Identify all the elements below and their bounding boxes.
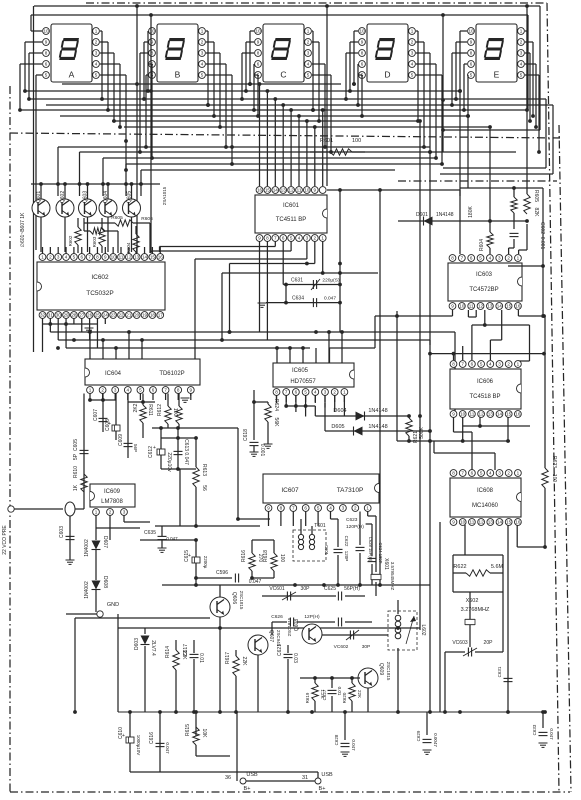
svg-text:C607: C607 [93, 409, 99, 421]
svg-text:5: 5 [201, 73, 204, 78]
svg-text:R619: R619 [305, 692, 310, 703]
svg-text:R606: R606 [141, 216, 153, 222]
svg-text:1: 1 [95, 29, 98, 34]
svg-text:1000µ10V: 1000µ10V [136, 735, 141, 756]
svg-text:3: 3 [520, 51, 523, 56]
svg-text:7: 7 [285, 390, 288, 395]
svg-text:C622: C622 [344, 536, 349, 547]
svg-text:28: 28 [71, 313, 77, 318]
svg-text:3: 3 [307, 51, 310, 56]
svg-text:16: 16 [515, 304, 521, 309]
svg-text:100: 100 [551, 474, 557, 483]
svg-text:12: 12 [289, 188, 295, 193]
svg-text:R618: R618 [263, 550, 269, 562]
svg-text:4: 4 [314, 390, 317, 395]
svg-text:11: 11 [119, 255, 124, 260]
svg-text:11: 11 [470, 412, 475, 417]
svg-text:C624 180P: C624 180P [378, 543, 383, 564]
svg-text:0.001: 0.001 [259, 444, 265, 457]
svg-text:R615: R615 [185, 724, 191, 736]
svg-text:TC4572BP: TC4572BP [469, 287, 498, 293]
svg-text:C613 0.047: C613 0.047 [183, 439, 189, 465]
svg-text:9: 9 [258, 236, 261, 241]
svg-text:1: 1 [41, 255, 44, 260]
svg-text:A: A [69, 70, 75, 80]
svg-text:IC609: IC609 [104, 489, 121, 495]
svg-text:10: 10 [468, 29, 474, 34]
svg-text:VC601: VC601 [269, 586, 285, 592]
svg-text:1: 1 [95, 510, 98, 515]
svg-text:2: 2 [354, 506, 357, 511]
svg-text:C623: C623 [346, 517, 358, 523]
svg-text:36: 36 [225, 775, 231, 781]
svg-text:∅601~B607 1K: ∅601~B607 1K [20, 212, 26, 247]
svg-text:12: 12 [478, 304, 484, 309]
svg-text:IC601: IC601 [283, 203, 300, 209]
svg-text:C627: C627 [322, 689, 327, 700]
svg-text:12: 12 [479, 412, 485, 417]
svg-text:IC607: IC607 [281, 487, 299, 494]
svg-text:180K: 180K [468, 206, 474, 218]
svg-text:11: 11 [469, 304, 474, 309]
svg-text:5: 5 [479, 256, 482, 261]
svg-text:12: 12 [126, 255, 132, 260]
svg-text:C612: C612 [148, 446, 154, 458]
svg-text:11: 11 [297, 188, 302, 193]
svg-text:5: 5 [317, 506, 320, 511]
svg-text:22K: 22K [357, 690, 362, 698]
svg-text:120P(H): 120P(H) [346, 524, 364, 530]
svg-text:C635: C635 [144, 530, 156, 536]
svg-text:C634: C634 [292, 296, 304, 302]
svg-text:15: 15 [506, 304, 512, 309]
svg-text:19: 19 [142, 313, 148, 318]
svg-text:R613: R613 [201, 464, 207, 476]
svg-text:6: 6 [304, 506, 307, 511]
svg-text:IC608: IC608 [477, 488, 494, 494]
svg-text:1: 1 [343, 390, 346, 395]
svg-text:16: 16 [158, 255, 164, 260]
svg-text:1N4148: 1N4148 [436, 212, 454, 218]
svg-text:0.03: 0.03 [292, 653, 298, 663]
svg-text:1N4148: 1N4148 [368, 408, 387, 414]
svg-text:3: 3 [342, 506, 345, 511]
svg-text:30P: 30P [362, 644, 371, 650]
svg-text:D603: D603 [134, 638, 140, 650]
svg-text:9: 9 [452, 412, 455, 417]
svg-text:R611: R611 [147, 404, 153, 416]
svg-text:4: 4 [298, 236, 301, 241]
svg-text:20P: 20P [484, 640, 494, 646]
svg-text:0.047: 0.047 [165, 742, 170, 754]
svg-text:2SA1015: 2SA1015 [162, 186, 167, 205]
svg-text:3: 3 [114, 388, 117, 393]
svg-text:22: 22 [118, 313, 124, 318]
svg-text:C629: C629 [416, 730, 421, 741]
svg-text:8: 8 [280, 506, 283, 511]
svg-text:21: 21 [126, 313, 132, 318]
svg-text:18: 18 [150, 313, 156, 318]
svg-text:0.047: 0.047 [351, 739, 356, 751]
svg-text:4: 4 [201, 62, 204, 67]
svg-text:MC14060: MC14060 [472, 503, 499, 509]
svg-text:13: 13 [488, 520, 494, 525]
svg-text:R620: R620 [342, 692, 347, 703]
svg-text:27: 27 [79, 313, 85, 318]
svg-text:32: 32 [40, 313, 46, 318]
svg-text:1: 1 [307, 29, 310, 34]
svg-text:C626: C626 [271, 614, 283, 620]
svg-text:20: 20 [134, 313, 140, 318]
svg-text:15: 15 [506, 412, 512, 417]
svg-text:7: 7 [292, 506, 295, 511]
svg-text:C602: C602 [539, 222, 545, 234]
svg-text:5: 5 [480, 362, 483, 367]
svg-text:R605: R605 [111, 215, 123, 221]
svg-text:B+: B+ [244, 786, 251, 792]
svg-text:5: 5 [95, 73, 98, 78]
svg-text:16: 16 [515, 520, 521, 525]
svg-text:220µ(S): 220µ(S) [322, 278, 340, 284]
svg-text:4: 4 [489, 471, 492, 476]
svg-text:8: 8 [470, 51, 473, 56]
svg-text:15: 15 [506, 520, 512, 525]
svg-text:2SC1815: 2SC1815 [386, 662, 391, 681]
svg-text:3: 3 [57, 255, 60, 260]
svg-text:B: B [175, 70, 181, 80]
svg-text:LM7808: LM7808 [101, 499, 123, 505]
svg-text:10: 10 [43, 29, 49, 34]
svg-text:13: 13 [281, 188, 287, 193]
svg-text:2K2: 2K2 [133, 403, 139, 412]
svg-text:16: 16 [515, 412, 521, 417]
svg-text:Q607: Q607 [268, 630, 274, 642]
svg-text:2: 2 [507, 362, 510, 367]
svg-text:24: 24 [103, 313, 109, 318]
svg-text:HD70557: HD70557 [290, 379, 316, 385]
svg-text:Q606: Q606 [231, 592, 237, 604]
svg-text:R622: R622 [453, 564, 466, 570]
svg-text:9: 9 [267, 506, 270, 511]
svg-text:10: 10 [304, 188, 310, 193]
svg-text:C617: C617 [183, 644, 189, 656]
svg-text:23: 23 [111, 313, 117, 318]
svg-text:5: 5 [470, 73, 473, 78]
svg-text:14: 14 [497, 412, 503, 417]
svg-text:5.6M: 5.6M [491, 564, 504, 570]
svg-text:8: 8 [96, 255, 99, 260]
svg-text:IC604: IC604 [105, 371, 122, 377]
svg-text:2: 2 [411, 40, 414, 45]
svg-text:14: 14 [142, 255, 148, 260]
svg-text:82K: 82K [533, 208, 539, 218]
svg-text:5: 5 [411, 73, 414, 78]
svg-text:8: 8 [451, 256, 454, 261]
svg-text:6: 6 [361, 62, 364, 67]
svg-text:3: 3 [411, 51, 414, 56]
svg-text:1N4002: 1N4002 [84, 539, 90, 557]
svg-text:1K: 1K [73, 484, 79, 491]
svg-text:C596: C596 [216, 570, 228, 576]
svg-text:3: 3 [324, 390, 327, 395]
svg-text:R605: R605 [533, 190, 539, 202]
svg-text:USB: USB [246, 772, 258, 778]
svg-text:TC4518 BP: TC4518 BP [469, 394, 500, 400]
svg-text:2200µ: 2200µ [203, 556, 208, 569]
svg-text:5P: 5P [73, 453, 79, 460]
svg-text:TC5032P: TC5032P [86, 290, 113, 297]
svg-text:17: 17 [158, 313, 164, 318]
svg-text:12P(H): 12P(H) [304, 614, 320, 620]
svg-text:R623: R623 [551, 456, 557, 468]
svg-text:5: 5 [307, 73, 310, 78]
svg-text:13: 13 [487, 304, 493, 309]
svg-text:VC603: VC603 [452, 640, 468, 646]
svg-text:GND: GND [107, 602, 119, 608]
svg-text:1: 1 [201, 29, 204, 34]
svg-text:C621: C621 [277, 644, 283, 656]
svg-text:56K: 56K [273, 418, 279, 428]
svg-text:9: 9 [470, 40, 473, 45]
svg-text:9: 9 [451, 304, 454, 309]
svg-text:2: 2 [101, 388, 104, 393]
svg-text:4: 4 [411, 62, 414, 67]
svg-text:12: 12 [479, 520, 485, 525]
svg-text:15: 15 [150, 255, 156, 260]
svg-text:5: 5 [139, 388, 142, 393]
svg-text:9: 9 [361, 40, 364, 45]
svg-text:0.001: 0.001 [539, 237, 545, 250]
svg-text:6: 6 [295, 390, 298, 395]
svg-text:R614: R614 [165, 646, 171, 658]
svg-text:IC602: IC602 [91, 274, 109, 281]
svg-text:1: 1 [520, 29, 523, 34]
svg-text:R616: R616 [241, 550, 247, 562]
svg-text:D601: D601 [416, 212, 428, 218]
svg-text:25: 25 [95, 313, 101, 318]
svg-text:26: 26 [87, 313, 93, 318]
svg-text:1: 1 [321, 236, 324, 241]
svg-text:4: 4 [489, 256, 492, 261]
svg-text:10: 10 [460, 520, 466, 525]
svg-text:C631: C631 [291, 278, 303, 284]
svg-text:C601: C601 [324, 545, 329, 556]
svg-text:56: 56 [201, 485, 207, 491]
svg-text:4: 4 [329, 506, 332, 511]
svg-text:6: 6 [45, 62, 48, 67]
svg-text:Q608: Q608 [294, 619, 300, 631]
svg-text:7: 7 [88, 255, 91, 260]
svg-text:15: 15 [265, 188, 271, 193]
svg-text:2: 2 [95, 40, 98, 45]
svg-text:10: 10 [460, 412, 466, 417]
svg-text:30: 30 [56, 313, 62, 318]
svg-text:31: 31 [48, 313, 54, 318]
svg-text:6: 6 [471, 362, 474, 367]
svg-text:R604: R604 [479, 239, 485, 251]
svg-text:6: 6 [257, 62, 260, 67]
svg-text:2: 2 [520, 40, 523, 45]
svg-text:6: 6 [80, 255, 83, 260]
svg-text:31: 31 [302, 775, 308, 781]
svg-text:5: 5 [45, 73, 48, 78]
svg-text:8: 8 [452, 362, 455, 367]
svg-text:5: 5 [73, 255, 76, 260]
svg-text:3: 3 [95, 51, 98, 56]
svg-text:1N4002: 1N4002 [84, 581, 90, 599]
svg-text:9: 9 [314, 188, 317, 193]
svg-text:T601: T601 [314, 523, 326, 529]
svg-text:7: 7 [461, 256, 464, 261]
svg-text:3: 3 [123, 510, 126, 515]
svg-text:8: 8 [45, 51, 48, 56]
svg-text:22 VCO PRE: 22 VCO PRE [2, 525, 8, 555]
svg-text:D608: D608 [102, 576, 108, 588]
svg-text:C603: C603 [59, 526, 65, 538]
svg-text:0.047: 0.047 [549, 728, 554, 740]
svg-text:C631: C631 [497, 666, 502, 677]
svg-text:9: 9 [257, 40, 260, 45]
svg-text:10: 10 [255, 29, 261, 34]
svg-text:9: 9 [190, 388, 193, 393]
svg-text:16: 16 [257, 188, 263, 193]
svg-text:5: 5 [520, 73, 523, 78]
svg-text:C608: C608 [105, 419, 111, 431]
svg-text:0.047: 0.047 [324, 296, 336, 302]
svg-text:C616: C616 [149, 732, 155, 744]
svg-text:6: 6 [282, 236, 285, 241]
svg-text:IC606: IC606 [477, 379, 494, 385]
svg-text:4: 4 [307, 62, 310, 67]
svg-text:9: 9 [45, 40, 48, 45]
svg-text:IC605: IC605 [292, 368, 309, 374]
svg-text:56P: 56P [133, 444, 138, 452]
svg-text:1: 1 [411, 29, 414, 34]
svg-text:3: 3 [498, 362, 501, 367]
svg-text:D: D [384, 70, 390, 80]
svg-text:14: 14 [273, 188, 279, 193]
svg-text:Q609: Q609 [378, 663, 384, 675]
svg-text:C625: C625 [324, 586, 336, 592]
svg-text:8: 8 [452, 471, 455, 476]
svg-text:4: 4 [65, 255, 68, 260]
svg-text:2: 2 [333, 390, 336, 395]
svg-text:B+: B+ [319, 786, 326, 792]
svg-text:4: 4 [127, 388, 130, 393]
svg-text:0.047: 0.047 [249, 579, 262, 585]
svg-text:1: 1 [89, 388, 92, 393]
svg-text:2SC1815: 2SC1815 [287, 617, 292, 636]
svg-text:IC603: IC603 [476, 272, 493, 278]
svg-text:1: 1 [517, 256, 520, 261]
svg-text:8: 8 [177, 388, 180, 393]
svg-text:5: 5 [290, 236, 293, 241]
svg-text:2LV7.4: 2LV7.4 [150, 640, 156, 656]
svg-text:C609: C609 [118, 434, 124, 446]
svg-text:TA7310P: TA7310P [337, 487, 364, 494]
svg-text:2: 2 [507, 256, 510, 261]
svg-text:10: 10 [459, 304, 465, 309]
svg-text:2: 2 [49, 255, 52, 260]
svg-text:X602: X602 [466, 598, 479, 604]
svg-text:1: 1 [366, 506, 369, 511]
svg-text:2: 2 [109, 510, 112, 515]
svg-text:6: 6 [471, 471, 474, 476]
svg-text:8: 8 [275, 390, 278, 395]
svg-text:30P: 30P [301, 586, 311, 592]
svg-text:9: 9 [452, 520, 455, 525]
svg-text:1N4148: 1N4148 [368, 424, 387, 430]
svg-text:3: 3 [306, 236, 309, 241]
svg-text:14: 14 [497, 304, 503, 309]
svg-text:7: 7 [461, 471, 464, 476]
svg-text:C628: C628 [334, 734, 339, 745]
svg-text:56P(H): 56P(H) [344, 586, 360, 592]
svg-text:120P: 120P [344, 551, 349, 562]
svg-text:1: 1 [517, 362, 520, 367]
svg-text:7: 7 [164, 388, 167, 393]
svg-text:R612: R612 [157, 404, 163, 416]
svg-text:3: 3 [498, 256, 501, 261]
svg-text:3.2768MHZ: 3.2768MHZ [461, 607, 490, 613]
svg-text:TD6102P: TD6102P [159, 371, 184, 377]
svg-text:6: 6 [470, 62, 473, 67]
svg-text:13: 13 [134, 255, 140, 260]
svg-text:VC602: VC602 [334, 644, 349, 650]
svg-text:0.01: 0.01 [198, 653, 204, 663]
svg-text:6: 6 [470, 256, 473, 261]
svg-text:100: 100 [279, 554, 285, 563]
svg-text:13: 13 [488, 412, 494, 417]
svg-text:C610: C610 [118, 727, 124, 739]
svg-text:2: 2 [201, 40, 204, 45]
svg-text:10K: 10K [201, 729, 207, 739]
svg-text:0.0047: 0.0047 [433, 733, 438, 747]
svg-text:2SC1815: 2SC1815 [239, 591, 244, 610]
svg-text:11: 11 [470, 520, 475, 525]
svg-text:8: 8 [266, 236, 269, 241]
svg-text:R603: R603 [92, 236, 97, 247]
svg-text:6: 6 [152, 388, 155, 393]
svg-text:2: 2 [307, 40, 310, 45]
svg-text:10: 10 [149, 29, 155, 34]
svg-text:4: 4 [489, 362, 492, 367]
svg-text:C615: C615 [184, 550, 190, 562]
svg-text:22K: 22K [241, 657, 247, 667]
svg-text:2: 2 [314, 236, 317, 241]
svg-text:D607: D607 [102, 536, 108, 548]
svg-text:X601: X601 [383, 558, 389, 570]
svg-text:8: 8 [361, 51, 364, 56]
svg-text:500K: 500K [419, 427, 425, 439]
svg-text:100: 100 [352, 138, 361, 144]
svg-text:C: C [280, 70, 286, 80]
svg-text:L602: L602 [420, 624, 426, 635]
svg-text:E: E [494, 70, 500, 80]
svg-text:TC4511 BP: TC4511 BP [276, 217, 307, 223]
svg-text:USB: USB [321, 772, 333, 778]
svg-text:3.579545MHZ: 3.579545MHZ [390, 562, 395, 591]
svg-text:C618: C618 [243, 429, 249, 441]
svg-text:3: 3 [498, 471, 501, 476]
svg-text:7: 7 [461, 362, 464, 367]
svg-text:R617: R617 [225, 652, 231, 664]
svg-text:C633: C633 [532, 724, 537, 735]
svg-text:R602: R602 [68, 235, 73, 246]
svg-text:14: 14 [497, 520, 503, 525]
svg-text:8: 8 [257, 51, 260, 56]
svg-text:4: 4 [95, 62, 98, 67]
